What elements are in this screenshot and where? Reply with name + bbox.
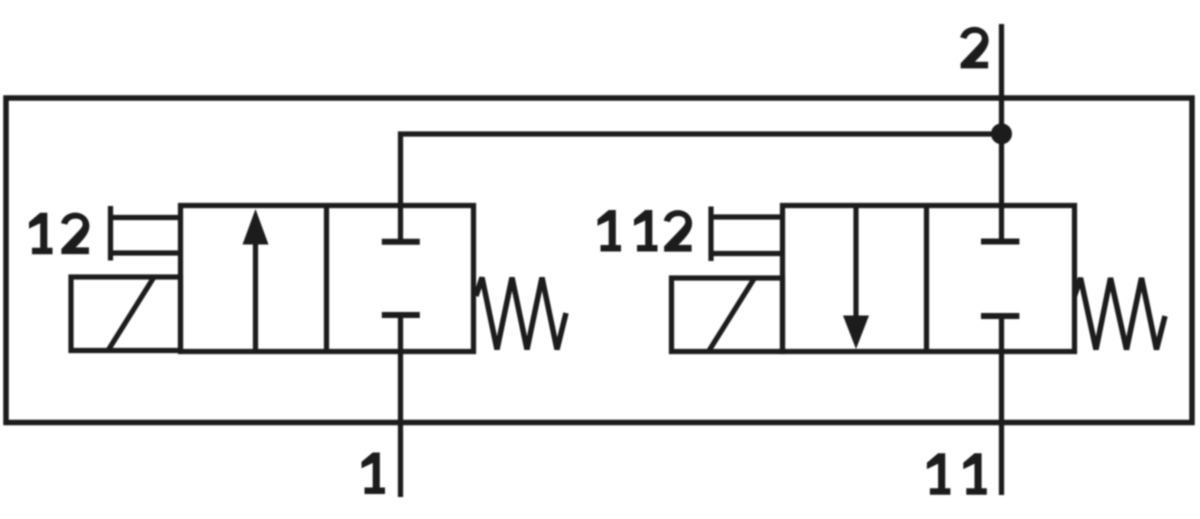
junction — [991, 123, 1012, 144]
V2 solenoid box — [672, 278, 783, 352]
V1 solenoid diagonal — [108, 277, 154, 351]
V1 divider — [324, 206, 329, 352]
valve V2 body — [783, 206, 1075, 352]
V2 pilot line upper — [711, 214, 783, 219]
V1 up arrow shaft — [253, 242, 258, 351]
V2 top port stub — [999, 206, 1004, 242]
label 112 — [598, 210, 622, 252]
V2 down arrow shaft — [853, 206, 858, 317]
label 1 — [362, 453, 386, 495]
label 2 — [960, 27, 988, 69]
V1 spring — [476, 278, 566, 350]
V1 top port stub — [398, 206, 403, 242]
port 2 line — [999, 24, 1004, 206]
V2 top port crossbar — [981, 239, 1019, 245]
V2 spring — [1075, 278, 1166, 350]
V1 up arrow head — [243, 209, 269, 245]
port 1 line — [398, 315, 403, 497]
V2 divider — [924, 206, 929, 352]
label 12 — [29, 213, 53, 255]
enclosure box — [6, 98, 1192, 423]
V1 pilot tick — [108, 206, 113, 261]
V2 pilot tick — [708, 207, 713, 262]
V2 solenoid diagonal — [709, 278, 755, 352]
V2 pilot line lower — [711, 251, 783, 256]
wire valve1 top to junction — [401, 134, 1002, 206]
port 11 line — [999, 316, 1004, 495]
V1 pilot line lower — [111, 250, 182, 255]
valve V1 body — [181, 206, 474, 352]
V2 bottom port crossbar — [981, 313, 1019, 319]
V1 bottom port crossbar — [382, 312, 420, 318]
V1 pilot line upper — [111, 215, 182, 220]
V2 down arrow head — [843, 316, 869, 350]
label 11 — [927, 453, 951, 495]
V1 top port crossbar — [382, 239, 420, 245]
V1 solenoid box — [71, 277, 181, 351]
